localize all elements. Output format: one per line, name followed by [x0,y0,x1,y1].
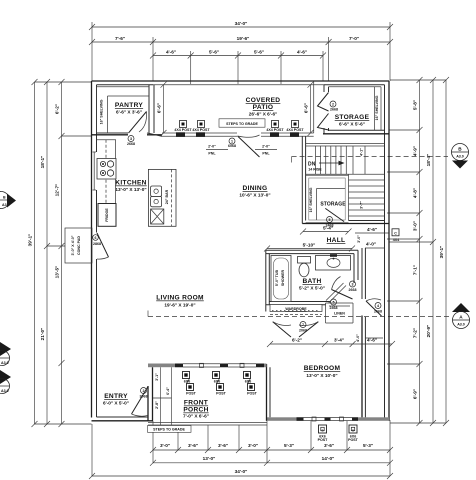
svg-text:16" SHELVING: 16" SHELVING [100,99,104,124]
svg-text:20'-9": 20'-9" [426,325,431,338]
svg-text:3'-6": 3'-6" [218,443,228,448]
svg-text:POST: POST [348,438,359,442]
svg-text:39'-1": 39'-1" [28,234,33,247]
stair bottom wall [302,223,389,225]
svg-text:1: 1 [231,140,233,144]
svg-text:26'-6" X 6'-6": 26'-6" X 6'-6" [249,112,278,117]
svg-text:3068: 3068 [140,395,148,399]
wardrobe [270,305,322,315]
hall arm west wall [362,248,365,299]
dim line second row 7'-6" 19'-6" 7'-0" [89,36,393,45]
bottom dim row3 34'-0" [89,469,393,479]
svg-text:5'-10": 5'-10" [303,243,316,248]
pantry shelving lines [97,87,150,133]
entry door [132,387,149,417]
fridge [98,204,116,227]
svg-text:6'-9": 6'-9" [413,389,418,399]
living room label [156,295,204,308]
svg-text:2668: 2668 [374,310,382,314]
svg-text:34'-0": 34'-0" [235,21,248,26]
svg-text:A3.0: A3.0 [1,361,9,365]
entry east wall [148,367,153,421]
right dim extension lines [387,80,446,423]
bedroom top dim 6'-2" 3'-4" 4'-6" [267,338,395,348]
bedroom door 4 [366,299,382,316]
svg-text:POST: POST [186,392,197,396]
svg-text:34'-0": 34'-0" [235,469,248,474]
elevation marker left 1 [0,342,11,366]
svg-text:14 RISE: 14 RISE [308,168,322,172]
bottom dim row2 13'-0" 14'-0" [150,456,393,466]
svg-text:4'-8": 4'-8" [413,188,418,198]
closet doors V [273,322,319,338]
svg-text:2'-0": 2'-0" [208,145,216,149]
stair storage box [306,175,349,222]
svg-text:6'-2": 6'-2" [292,338,302,343]
dim line 34'-0" top [89,21,393,30]
svg-text:2: 2 [143,389,145,393]
window left wall [93,152,97,190]
svg-text:A3.0: A3.0 [457,323,465,327]
svg-text:STEPS TO GRADE: STEPS TO GRADE [153,428,185,432]
svg-text:6'-6": 6'-6" [304,103,309,113]
svg-text:6'-0" X 5'-0": 6'-0" X 5'-0" [103,401,129,406]
svg-text:3'-4": 3'-4" [334,338,344,343]
tub [271,256,291,302]
bath west wall [266,250,270,311]
svg-text:2: 2 [332,103,334,107]
dining label [239,185,270,198]
svg-text:6'-6" X 5'-6": 6'-6" X 5'-6" [339,122,365,127]
svg-text:3'-0": 3'-0" [160,443,170,448]
section marker A right [452,303,470,329]
svg-text:13'-5": 13'-5" [55,266,60,279]
svg-text:13'-0": 13'-0" [203,456,216,461]
svg-text:2668: 2668 [330,108,338,112]
bath angled door [326,277,357,304]
svg-text:PANTRY: PANTRY [115,102,143,109]
upper flight treads [316,146,366,174]
bath south wall [266,302,330,305]
post C symbol [392,229,399,242]
svg-text:3: 3 [352,283,354,287]
bedroom label [304,365,341,378]
bottom wall entry [92,420,154,422]
svg-text:14'-0": 14'-0" [322,456,335,461]
pantry door [127,112,147,147]
stair landing divider [306,173,385,175]
left side door [93,233,109,259]
patio french door [228,135,260,157]
svg-text:2'-0": 2'-0" [262,145,270,149]
left dim line inner 6'-2" 12'-7" 13'-5" [55,79,65,427]
svg-text:3'-6": 3'-6" [188,443,198,448]
pantry label [100,99,144,124]
left dim line middle 18'-1" / 21'-0" [40,79,50,427]
svg-text:3'-0" X 4'-0": 3'-0" X 4'-0" [71,235,75,255]
hall dim 5'-10" [264,243,355,252]
svg-text:4: 4 [377,304,379,308]
svg-text:4X4 POST: 4X4 POST [174,128,192,132]
exterior wall top [92,80,390,82]
DN arrow [308,161,345,172]
svg-text:PATIO: PATIO [253,104,274,111]
svg-text:3'-0": 3'-0" [357,235,361,243]
svg-text:FRONT: FRONT [184,400,208,407]
bottom dim row1 porch+bedroom segments [150,443,393,453]
covered patio label [246,97,281,117]
elevation marker left 2 [0,370,11,394]
svg-text:B: B [352,428,354,432]
svg-text:13'-0" X 10'-0": 13'-0" X 10'-0" [306,373,337,378]
kitchen label [115,180,146,193]
svg-text:2668: 2668 [349,288,357,292]
front porch label [183,400,209,419]
svg-text:CONC PAD: CONC PAD [77,236,81,255]
svg-text:18'-4": 18'-4" [426,154,431,167]
bath vanity [316,254,351,270]
svg-text:7'-0": 7'-0" [349,36,359,41]
svg-text:5'-3": 5'-3" [363,443,373,448]
svg-text:6068: 6068 [228,144,236,148]
svg-text:FRIDGE: FRIDGE [105,208,109,222]
svg-text:5'-6": 5'-6" [209,50,219,55]
svg-text:3'-7": 3'-7" [360,201,364,209]
svg-text:6: 6 [95,236,97,240]
svg-text:6X6: 6X6 [245,380,251,384]
storage top-right walls/shelf [323,87,389,134]
steps to grade box bottom [148,426,192,433]
svg-text:2'-8": 2'-8" [155,401,159,409]
svg-text:C: C [394,232,397,236]
svg-text:5: 5 [329,218,331,222]
svg-text:4X4 POST: 4X4 POST [266,128,284,132]
svg-text:4X4 POST: 4X4 POST [192,128,210,132]
svg-text:LIVING ROOM: LIVING ROOM [156,295,204,302]
island [148,169,176,226]
svg-text:7'-6": 7'-6" [115,36,125,41]
svg-text:4'-6": 4'-6" [367,227,377,232]
svg-text:16" SHELVING: 16" SHELVING [375,95,379,120]
front porch columns [183,372,258,396]
svg-text:HALL: HALL [327,237,346,244]
svg-text:19'-6": 19'-6" [237,36,250,41]
svg-text:4'-6": 4'-6" [297,50,307,55]
svg-text:12'-7": 12'-7" [55,184,60,197]
svg-text:POST: POST [216,392,227,396]
svg-text:LINEN: LINEN [334,312,345,316]
svg-text:7'-1": 7'-1" [413,265,418,275]
svg-text:KITCHEN: KITCHEN [115,180,146,187]
exterior wall left [91,81,93,418]
svg-text:6'-4": 6'-4" [166,387,170,395]
left dim line outer 39'-1" [28,79,38,427]
svg-text:B: B [322,428,324,432]
svg-text:2668: 2668 [127,142,135,146]
patio east line [313,81,315,133]
pantry south wall with door opening [92,134,163,136]
svg-text:A3.0: A3.0 [1,389,9,393]
section marker B right [452,144,469,169]
living room south wall with openings [148,363,267,367]
porch south edge [148,423,267,426]
svg-text:PNL: PNL [262,152,270,156]
svg-text:4'-0": 4'-0" [356,334,360,342]
pantry right wall [149,85,154,133]
svg-text:13'-0" X 13'-0": 13'-0" X 13'-0" [115,187,146,192]
svg-text:COVERED: COVERED [246,97,281,104]
dim line third row 4'-6" 5'-6" 5'-6" 4'-6" [150,50,326,59]
svg-text:5'-3": 5'-3" [284,443,294,448]
svg-text:5'-0" TUB: 5'-0" TUB [275,270,279,287]
svg-text:6X6: 6X6 [214,380,220,384]
right flight treads [349,174,385,220]
bedroom right interior wall [361,316,363,418]
svg-text:4X4: 4X4 [393,238,399,242]
svg-text:3'-1": 3'-1" [155,373,159,381]
bedroom window dim right [356,334,383,342]
svg-text:21'-0": 21'-0" [40,328,45,341]
svg-text:5'-6": 5'-6" [254,50,264,55]
bedroom west wall [266,364,268,421]
svg-text:6X6: 6X6 [184,380,190,384]
svg-text:7: 7 [302,323,304,327]
svg-text:BATH: BATH [302,278,321,285]
svg-text:PORCH: PORCH [183,407,208,414]
svg-text:B: B [3,196,6,200]
svg-text:6'-6": 6'-6" [157,103,162,113]
bedroom deck posts B [318,425,359,442]
range [97,159,116,180]
svg-text:3'-0": 3'-0" [413,221,418,231]
svg-text:18'-1": 18'-1" [40,156,45,169]
svg-text:STORAGE: STORAGE [335,114,370,121]
svg-text:7'-2": 7'-2" [413,328,418,338]
kitchen counter [97,140,116,204]
storage top-right label [335,95,379,126]
svg-text:2068: 2068 [299,329,307,333]
svg-text:4'-6": 4'-6" [367,338,377,343]
svg-text:5'-2" X 5'-0": 5'-2" X 5'-0" [299,286,325,291]
svg-text:3: 3 [130,137,132,141]
svg-text:3'-0": 3'-0" [248,443,258,448]
right dim line outer 39'-1" [439,77,449,426]
svg-text:5'-8": 5'-8" [413,100,418,110]
section marker left B [0,192,16,209]
svg-text:3'-6": 3'-6" [324,443,334,448]
linen closet [326,299,354,323]
section line A dashed [148,316,450,318]
patio posts A [174,121,304,133]
stair storage dim 5'-4" [300,226,352,235]
storage top-right west wall with bifold [318,85,329,134]
svg-text:2868: 2868 [93,242,101,246]
svg-text:2468: 2468 [330,306,338,310]
svg-text:STORAGE: STORAGE [320,202,346,208]
svg-text:ENTRY: ENTRY [104,393,128,400]
patio south wall segments with windows/posts [162,132,314,137]
svg-text:4X4 POST: 4X4 POST [286,128,304,132]
right dim line middle 18'-4" 20'-9" [426,77,436,426]
steps to grade box patio [219,119,265,127]
exterior wall right [388,81,390,421]
svg-text:SHOWER: SHOWER [281,270,285,287]
svg-text:7'-0" X 6'-6": 7'-0" X 6'-6" [183,414,209,419]
bottom dim extension lines [92,420,390,476]
svg-text:24" BAR: 24" BAR [165,189,169,204]
hall east dims [355,227,389,248]
svg-text:10'-6" X 13'-0": 10'-6" X 13'-0" [239,193,270,198]
left conc pad box [65,228,92,263]
svg-text:6'-2": 6'-2" [55,104,60,114]
svg-text:5: 5 [333,301,335,305]
svg-text:POST: POST [318,438,329,442]
svg-text:19'-6" X 19'-0": 19'-6" X 19'-0" [164,303,195,308]
left dim extension lines [35,82,92,424]
right dim line inner segments [413,77,423,426]
stair width dims rotated [360,148,364,209]
patio 6'-6" dim left [157,82,167,136]
storage door circle 2 [330,101,338,112]
porch inner dims [153,367,172,425]
svg-text:16" SHELVING: 16" SHELVING [309,187,313,212]
hall label [327,237,346,244]
svg-text:39'-1": 39'-1" [439,246,444,259]
toilet [298,257,311,277]
svg-text:STEPS TO GRADE: STEPS TO GRADE [226,122,258,126]
top dim extension lines [92,22,390,84]
svg-text:4'-9": 4'-9" [413,146,418,156]
stair storage door [325,208,344,227]
svg-text:POST: POST [247,392,258,396]
svg-text:DINING: DINING [243,185,268,192]
svg-text:4'-0": 4'-0" [366,242,376,247]
bath east wall [354,250,358,283]
bath label [299,278,325,291]
stairwell west wall [302,136,305,223]
patio 6'-6" dim right [304,82,314,136]
section line B dashed [292,156,448,158]
sidelight dims 2'-0" PNL [206,145,277,156]
bottom wall bedroom band [266,417,389,421]
stair top wall [306,144,385,147]
svg-text:6'-6" X 3'-6": 6'-6" X 3'-6" [116,110,142,115]
svg-text:4'-1": 4'-1" [360,148,364,156]
entry label [103,393,129,406]
svg-text:PNL: PNL [208,152,216,156]
bath north wall [266,250,358,253]
svg-text:A3.0: A3.0 [456,155,464,159]
svg-text:BEDROOM: BEDROOM [304,365,341,372]
svg-text:4'-6": 4'-6" [166,50,176,55]
svg-text:5'-4": 5'-4" [323,226,333,231]
